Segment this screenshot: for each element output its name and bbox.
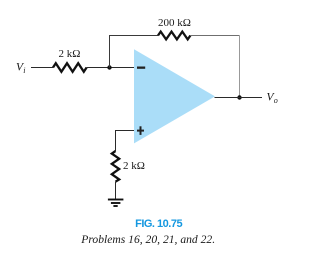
- caption FIG. 10.75: [135, 218, 182, 231]
- ground: [108, 200, 124, 207]
- node B (output junction): [237, 95, 241, 99]
- wire: [87, 67, 134, 69]
- svg-text:2 kΩ: 2 kΩ: [59, 48, 81, 60]
- resistor R2 200 kOhm (feedback): [158, 32, 190, 40]
- caption problems: [81, 234, 215, 246]
- svg-text:200 kΩ: 200 kΩ: [158, 17, 191, 29]
- wire: [110, 36, 159, 68]
- resistor R1 2 kOhm (input): [53, 63, 87, 72]
- wire: [215, 97, 263, 99]
- wire: [190, 35, 239, 37]
- svg-text:i: i: [23, 66, 25, 75]
- wire: [115, 182, 117, 199]
- svg-text:o: o: [274, 96, 278, 105]
- wire: [239, 36, 241, 98]
- svg-text:2 kΩ: 2 kΩ: [123, 160, 145, 172]
- pin - (inverting input): [137, 67, 145, 69]
- pin + (non-inverting input): [137, 130, 144, 132]
- wire: [31, 67, 53, 69]
- wire: [116, 131, 135, 152]
- resistor R3 2 kOhm (to ground): [112, 151, 119, 182]
- op-amp U1: [134, 49, 215, 143]
- node A (junction at inverting input): [107, 65, 111, 69]
